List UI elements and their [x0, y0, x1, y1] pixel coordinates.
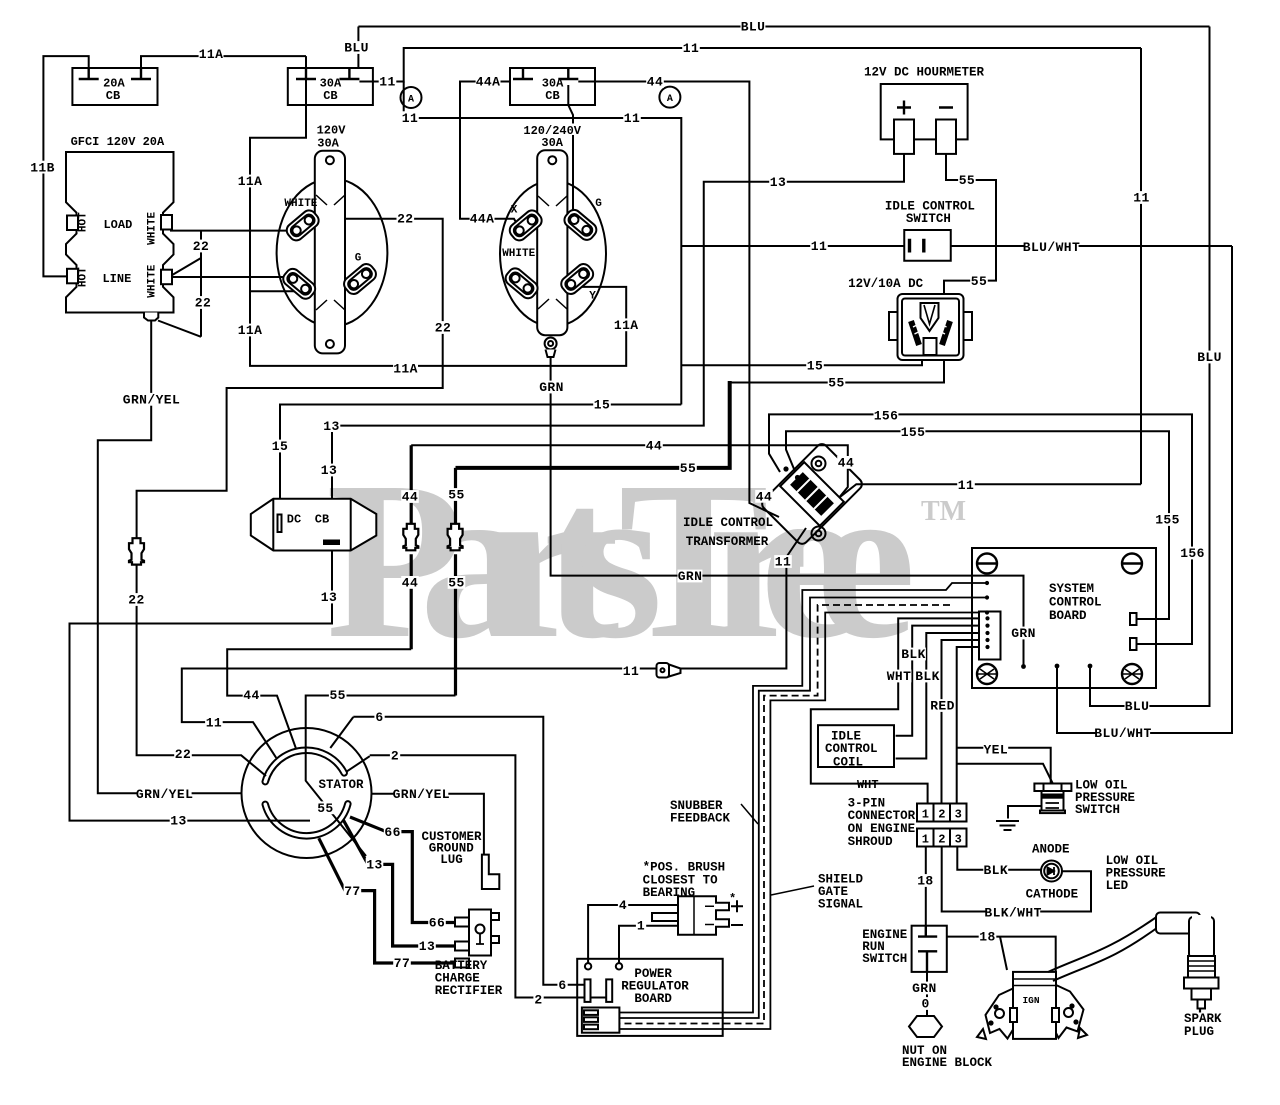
svg-text:6: 6: [558, 978, 566, 993]
svg-text:11A: 11A: [393, 362, 418, 377]
wire 44 to stator: [227, 649, 411, 748]
label 55: [329, 689, 347, 702]
svg-text:BLU: BLU: [1197, 350, 1222, 365]
wire 11: transformer down to stator: [182, 528, 806, 758]
svg-text:30A: 30A: [317, 137, 339, 151]
label 18: [917, 874, 935, 887]
label 44: [837, 456, 855, 469]
svg-text:11: 11: [811, 239, 827, 254]
wire YEL: SCB pin5 to connector pin3: [957, 647, 988, 804]
wire 15 to 12V DC outlet: [681, 356, 922, 365]
svg-text:YEL: YEL: [983, 743, 1008, 758]
label 22: [192, 240, 210, 253]
svg-text:TRANSFORMER: TRANSFORMER: [686, 535, 769, 549]
svg-text:IDLE CONTROL: IDLE CONTROL: [683, 516, 773, 530]
circuit breaker 20A CB: [72, 68, 157, 105]
label 155: [1155, 513, 1180, 526]
120/240 receptacle G slot: [562, 207, 600, 243]
wire BLU/WHT right riser: [1057, 246, 1232, 733]
svg-text:30A: 30A: [541, 136, 563, 150]
svg-text:77: 77: [394, 956, 410, 971]
svg-text:22: 22: [128, 593, 144, 608]
svg-text:11: 11: [683, 41, 699, 56]
customer ground lug: [482, 855, 499, 889]
svg-text:BLU: BLU: [741, 20, 766, 35]
system control board: [972, 548, 1156, 688]
120V 30A receptacle: [277, 151, 388, 354]
wire 11A: 20A CB to GFCI line hot: [43, 56, 88, 276]
label 18: [979, 930, 997, 943]
GFCI white terminal line: [161, 270, 172, 285]
label BLU: [1125, 700, 1150, 713]
svg-text:SPARK: SPARK: [1184, 1012, 1222, 1026]
svg-text:LINE: LINE: [102, 272, 131, 286]
label BLU: [344, 41, 369, 54]
bus shield dashed line: [619, 605, 950, 1024]
label BLU/WHT: [1025, 240, 1079, 253]
svg-text:WHT: WHT: [887, 669, 912, 684]
wire 22: white slot jumper GFCI load: [170, 230, 291, 232]
svg-text:GRN: GRN: [678, 569, 703, 584]
wire 15 to DC CB: [280, 405, 681, 515]
svg-text:CB: CB: [106, 89, 120, 103]
wire 55 low: 12V outlet to stator: [730, 345, 944, 383]
svg-text:WHITE: WHITE: [147, 264, 159, 297]
wire 4: brush to power regulator board: [588, 905, 677, 963]
stator: [242, 728, 372, 858]
svg-text:PartsTree: PartsTree: [326, 435, 912, 685]
12V/10A DC outlet: [889, 294, 972, 360]
svg-text:2: 2: [938, 833, 945, 847]
svg-text:15: 15: [272, 439, 288, 454]
label GRN/YEL: [138, 787, 192, 800]
label GRN: [912, 982, 937, 995]
label 55: [828, 376, 846, 389]
svg-text:GRN: GRN: [912, 981, 937, 996]
wire 11 right riser: [1140, 48, 1142, 484]
label 22: [194, 296, 212, 309]
label 4: [618, 898, 628, 911]
svg-text:22: 22: [193, 239, 209, 254]
svg-text:COIL: COIL: [833, 756, 863, 770]
label 44: [401, 490, 419, 503]
label 13: [170, 814, 188, 827]
svg-text:BLK: BLK: [901, 647, 926, 662]
label 2: [390, 749, 400, 762]
label 11: [379, 75, 397, 88]
svg-text:22: 22: [397, 212, 413, 227]
svg-text:WHITE: WHITE: [502, 248, 535, 260]
svg-text:FEEDBACK: FEEDBACK: [670, 812, 731, 826]
label 44: [243, 689, 261, 702]
svg-text:CONTROL: CONTROL: [825, 742, 878, 756]
wire branch to switch body: [957, 764, 1053, 783]
svg-text:WHITE: WHITE: [284, 198, 317, 210]
svg-text:TM: TM: [921, 496, 966, 527]
12V DC hourmeter: [881, 84, 968, 154]
label BLU: [1197, 351, 1222, 364]
wire 156: transformer secondary to SCB: [769, 414, 1192, 644]
GFCI white terminal load: [161, 215, 172, 230]
wire 11: transformer to right riser: [840, 484, 1141, 497]
svg-text:GRN/YEL: GRN/YEL: [393, 787, 450, 802]
wire BLK/WHT: connector to LED cathode: [942, 847, 1091, 912]
svg-text:15: 15: [594, 398, 610, 413]
svg-text:PLUG: PLUG: [1184, 1025, 1214, 1039]
svg-text:155: 155: [1155, 513, 1180, 528]
label 13: [366, 858, 384, 871]
label GRN/YEL: [394, 787, 448, 800]
svg-text:13: 13: [419, 939, 435, 954]
svg-text:SWITCH: SWITCH: [1075, 803, 1120, 817]
battery charge rectifier: [455, 910, 499, 968]
text 30A: [538, 136, 566, 148]
svg-text:LUG: LUG: [440, 853, 463, 867]
svg-text:13: 13: [170, 813, 186, 828]
text 120V: [313, 123, 349, 135]
svg-text:RECTIFIER: RECTIFIER: [435, 984, 503, 998]
GRN screw terminal: [545, 338, 557, 350]
shield gate signal pointer: [771, 886, 814, 895]
wire 2: stator to power regulator board: [347, 755, 608, 997]
label WHT: [887, 670, 912, 683]
svg-text:55: 55: [329, 688, 345, 703]
label 156: [874, 409, 899, 422]
wire 13: stator to rectifier: [343, 820, 456, 946]
svg-text:CB: CB: [315, 512, 329, 526]
svg-text:22: 22: [175, 747, 191, 762]
svg-text:1: 1: [922, 833, 929, 847]
svg-text:*: *: [729, 892, 736, 906]
svg-text:11: 11: [1133, 191, 1149, 206]
svg-text:55: 55: [971, 274, 987, 289]
inline connector 55: [448, 524, 463, 551]
bullet connector 11: [657, 663, 681, 678]
svg-text:BLU/WHT: BLU/WHT: [1094, 726, 1151, 741]
120/240V 30A receptacle: [500, 150, 606, 357]
svg-text:BOARD: BOARD: [634, 992, 672, 1006]
svg-text:66: 66: [429, 916, 445, 931]
label 66: [428, 916, 446, 929]
label 44: [755, 490, 773, 503]
SCB upper pins: [985, 581, 989, 585]
svg-text:13: 13: [366, 858, 382, 873]
label 11A: [393, 362, 418, 375]
wire RED: SCB pin4 to 3-pin connector: [942, 640, 988, 804]
wire 155: transformer secondary to SCB: [786, 431, 1169, 619]
SCB right terminals 155 156: [1130, 613, 1137, 625]
wire 66: stator to rectifier: [350, 817, 456, 923]
svg-text:11: 11: [623, 664, 639, 679]
label 44A: [476, 75, 501, 88]
label 15: [593, 398, 611, 411]
label BLK: [915, 670, 940, 683]
svg-text:156: 156: [874, 409, 899, 424]
svg-text:11: 11: [379, 75, 395, 90]
svg-text:CB: CB: [323, 89, 337, 103]
wire 18: switch to ignition: [947, 937, 1056, 972]
wire 44A: CB2 to X slot: [460, 82, 519, 228]
svg-text:11: 11: [775, 555, 791, 570]
wire 18: connector to engine run switch: [925, 847, 927, 926]
label 11A: [238, 175, 263, 188]
wire 55 inline connector run: [454, 468, 457, 696]
idle control switch: [904, 230, 951, 261]
svg-text:66: 66: [384, 825, 400, 840]
wire from CB2 to G slot: [568, 85, 573, 219]
wire GRN/YEL: GFCI to stator: [98, 321, 242, 794]
low oil pressure LED: [1041, 861, 1062, 882]
brush polarity marks: [731, 900, 743, 925]
svg-text:WHITE: WHITE: [147, 212, 159, 245]
svg-text:BLK/WHT: BLK/WHT: [984, 905, 1041, 920]
svg-text:CONTROL: CONTROL: [1049, 596, 1102, 610]
label BLU/WHT: [1096, 726, 1150, 739]
positive brush assembly: [652, 896, 729, 935]
svg-text:BOARD: BOARD: [1049, 609, 1087, 623]
svg-text:STATOR: STATOR: [318, 778, 364, 792]
wire 6: stator to power regulator board: [330, 717, 586, 985]
wire 77: stator to rectifier: [319, 838, 456, 963]
svg-text:LED: LED: [1106, 879, 1129, 893]
wire 55 thick segment: [456, 381, 730, 468]
wire BLU top bus: [358, 26, 1209, 28]
svg-text:13: 13: [321, 463, 337, 478]
label 77: [393, 956, 411, 969]
label 55: [448, 576, 466, 589]
wire GRN: 120/240 receptacle to system control board: [551, 351, 1024, 665]
svg-text:IGN: IGN: [1022, 995, 1039, 1006]
wire 13: hourmeter to DC CB: [332, 154, 904, 538]
label 0: [921, 997, 931, 1010]
bus line 1: [619, 583, 987, 1013]
label 44: [401, 576, 419, 589]
svg-text:SYSTEM: SYSTEM: [1049, 582, 1094, 596]
SCB 6-pin connector: [979, 612, 1001, 660]
label GRN: [539, 381, 564, 394]
svg-text:1: 1: [637, 919, 645, 934]
svg-text:55: 55: [317, 801, 333, 816]
svg-text:BEARING: BEARING: [643, 886, 696, 900]
inline connector 44: [403, 524, 418, 551]
svg-text:Y: Y: [589, 291, 596, 303]
label 11: [774, 555, 792, 568]
svg-text:18: 18: [979, 930, 995, 945]
svg-text:SWITCH: SWITCH: [906, 212, 951, 226]
svg-text:12V/10A DC: 12V/10A DC: [848, 277, 924, 291]
svg-text:55: 55: [448, 576, 464, 591]
svg-text:BLU: BLU: [1125, 699, 1150, 714]
3-pin connector row 2: [917, 829, 967, 847]
wire: switch ground to low oil pressure switch: [1008, 806, 1042, 819]
svg-text:GRN/YEL: GRN/YEL: [123, 393, 180, 408]
label 13: [323, 419, 341, 432]
svg-text:3: 3: [955, 833, 962, 847]
wire white: GFCI line to lower slot: [170, 276, 289, 278]
label 22: [128, 593, 146, 606]
spark plug boot: [1156, 913, 1214, 959]
ignition coil: [977, 972, 1087, 1039]
wire GRN: engine run switch to nut: [926, 972, 928, 1016]
120/240 receptacle WHITE slot: [503, 265, 541, 301]
svg-text:13: 13: [323, 419, 339, 434]
svg-text:11B: 11B: [30, 160, 55, 175]
PRB 3-pin block: [582, 1008, 620, 1033]
svg-text:A: A: [667, 94, 673, 105]
svg-text:SIGNAL: SIGNAL: [818, 898, 863, 912]
label 44A: [470, 212, 495, 225]
label 11: [622, 664, 640, 677]
wire BLU riser at CB1: [357, 27, 359, 69]
label 156: [1180, 547, 1205, 560]
wire WHT: SCB pin1 to 3-pin connector: [811, 618, 988, 803]
text 30A: [314, 137, 342, 149]
nut on engine block: [909, 1016, 942, 1037]
label 15: [271, 440, 289, 453]
label RED: [930, 699, 955, 712]
label 77: [344, 884, 362, 897]
stator lower winding arc: [262, 801, 350, 838]
svg-text:44: 44: [402, 490, 418, 505]
label 155: [901, 425, 926, 438]
svg-text:BLK: BLK: [915, 669, 940, 684]
svg-text:6: 6: [375, 710, 383, 725]
label 55: [970, 274, 988, 287]
wire 11A lower slot link: [250, 290, 303, 292]
120/240 receptacle X slot: [507, 208, 545, 244]
GFCI hot terminal line: [67, 269, 78, 284]
low oil pressure switch: [1034, 784, 1071, 814]
svg-text:GFCI 120V 20A: GFCI 120V 20A: [71, 135, 165, 149]
label 13: [320, 591, 338, 604]
svg-text:77: 77: [344, 884, 360, 899]
wire YEL branch to low oil pressure switch: [957, 748, 1051, 784]
SCB bottom pins: [1021, 664, 1026, 669]
svg-text:HOT: HOT: [78, 267, 90, 287]
label BLU: [741, 20, 766, 33]
bus line 4: [619, 613, 987, 1030]
text 120/240V: [520, 124, 584, 136]
svg-text:44: 44: [838, 456, 854, 471]
svg-text:DC: DC: [287, 512, 301, 526]
svg-text:44A: 44A: [470, 212, 495, 227]
label 13: [418, 940, 436, 953]
idle control transformer: [760, 442, 865, 547]
wire 11 branch to DC feed: [404, 82, 682, 405]
svg-text:13: 13: [321, 590, 337, 605]
power regulator board: [577, 959, 723, 1036]
svg-text:11A: 11A: [238, 174, 263, 189]
label 6: [374, 710, 384, 723]
label 22: [174, 747, 192, 760]
engine run switch: [912, 926, 947, 972]
svg-text:155: 155: [901, 425, 926, 440]
wire 44: CB2 right to transformer: [578, 82, 779, 518]
ammeter circle A #2: [659, 87, 680, 108]
spark plug: [1184, 956, 1219, 1013]
svg-text:11A: 11A: [614, 318, 639, 333]
svg-text:A: A: [408, 95, 414, 106]
wire 1: brush to power regulator board: [619, 926, 678, 963]
120V receptacle lower slot: [280, 266, 318, 302]
label 44: [645, 439, 663, 452]
label 13: [769, 175, 787, 188]
svg-text:11: 11: [958, 478, 974, 493]
label 11A: [199, 48, 224, 61]
svg-text:2: 2: [534, 992, 542, 1007]
wire 11A: 20A CB to 30A CB1: [141, 56, 306, 68]
svg-text:15: 15: [807, 358, 823, 373]
svg-text:G: G: [595, 198, 602, 210]
svg-text:0: 0: [921, 997, 929, 1012]
snubber feedback bus: [619, 583, 987, 1029]
svg-text:GRN: GRN: [1011, 626, 1036, 641]
svg-text:22: 22: [435, 321, 451, 336]
svg-text:11: 11: [402, 111, 418, 126]
svg-text:12V DC HOURMETER: 12V DC HOURMETER: [864, 66, 985, 80]
svg-text:LOAD: LOAD: [103, 218, 132, 232]
label 11A: [238, 324, 263, 337]
wire BLK: SCB pin3 to idle control coil: [896, 633, 988, 759]
svg-text:11A: 11A: [199, 47, 224, 62]
label BLK: [983, 863, 1008, 876]
ammeter circle A #1: [401, 87, 422, 108]
120V receptacle G slot: [341, 261, 379, 297]
svg-text:RED: RED: [930, 699, 955, 714]
svg-text:X: X: [511, 205, 518, 217]
svg-text:CATHODE: CATHODE: [1026, 887, 1079, 901]
wire 44 inline connector run: [410, 445, 413, 649]
svg-text:CB: CB: [545, 89, 559, 103]
label GRN: [1011, 627, 1036, 640]
svg-text:55: 55: [959, 173, 975, 188]
label 6: [557, 978, 567, 991]
svg-text:BLK: BLK: [983, 863, 1008, 878]
wire 11A: CB1 down through 120V receptacle feed: [250, 56, 626, 366]
svg-text:SHROUD: SHROUD: [848, 835, 894, 849]
svg-text:44A: 44A: [476, 75, 501, 90]
label 22: [434, 321, 452, 334]
label BLK: [901, 648, 926, 661]
svg-text:11A: 11A: [238, 323, 263, 338]
svg-text:11: 11: [206, 716, 222, 731]
label 11B: [30, 161, 55, 174]
wire BLK: SCB pin2 to idle control coil: [896, 626, 988, 736]
wire GRN/YEL: stator to ground lug: [371, 794, 484, 855]
wire 22: upper slot to stator: [137, 219, 443, 776]
label 1: [636, 919, 646, 932]
label 11: [810, 239, 828, 252]
wire BLU right riser to SCB: [1090, 27, 1210, 707]
120V receptacle white slot: [284, 208, 322, 244]
svg-text:4: 4: [619, 898, 627, 913]
svg-text:3: 3: [955, 808, 962, 822]
label 55: [958, 174, 976, 187]
label 13: [320, 464, 338, 477]
wire 44: transformer to inline connector: [411, 445, 848, 505]
DC CB breaker: [251, 499, 376, 551]
120/240 receptacle Y slot: [558, 261, 596, 297]
label YEL: [983, 743, 1008, 756]
label 11: [682, 42, 700, 55]
wire 55 into stator: [306, 696, 456, 857]
label 11A: [614, 318, 639, 331]
label 22: [397, 212, 415, 225]
svg-text:120V: 120V: [317, 124, 347, 138]
label 66: [384, 825, 402, 838]
svg-text:BLU: BLU: [344, 41, 369, 56]
svg-text:G: G: [355, 253, 362, 265]
